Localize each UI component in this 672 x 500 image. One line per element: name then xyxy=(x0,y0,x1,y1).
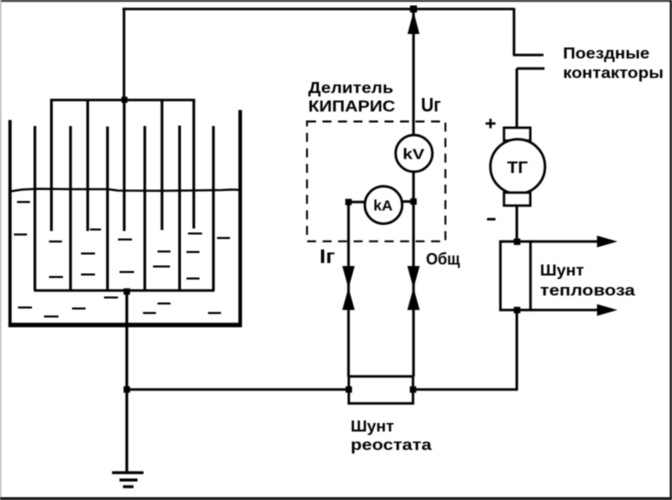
svg-text:тепловоза: тепловоза xyxy=(540,283,635,300)
svg-text:КИПАРИС: КИПАРИС xyxy=(308,98,395,115)
tank right wall xyxy=(238,110,242,326)
electrode B2 xyxy=(69,126,72,291)
arrow up on Obsh wire xyxy=(407,292,419,311)
wire from tank top bus up to top wire xyxy=(123,8,126,100)
wire kA right terminal xyxy=(402,200,414,203)
svg-text:реостата: реостата xyxy=(351,437,432,454)
svg-text:kA: kA xyxy=(373,198,392,215)
svg-text:Iг: Iг xyxy=(320,247,336,268)
water dash 13 xyxy=(72,308,86,310)
node junction at shunt bottom dot xyxy=(514,307,521,314)
wire generator to shunt xyxy=(515,206,518,242)
ammeter kA circle xyxy=(365,186,402,223)
dashed box divider KIPARIS xyxy=(307,122,445,242)
minus sign xyxy=(487,218,496,221)
electrode A3 xyxy=(123,100,126,231)
wire tank to ground xyxy=(125,291,128,473)
water dash 17 xyxy=(153,266,170,268)
node shunt reostata right dot xyxy=(410,386,416,392)
wire kA left terminal xyxy=(349,201,366,204)
wire contactor to generator plus xyxy=(515,69,518,129)
wire top horizontal bus xyxy=(123,8,515,11)
water dash 22 xyxy=(208,312,221,314)
electrode B6 xyxy=(212,126,215,291)
water dash 9 xyxy=(120,271,135,273)
water dash 12 xyxy=(44,316,59,318)
water dash 3 xyxy=(49,241,62,243)
node junction kA to main wire dot xyxy=(410,198,416,204)
node junction at shunt top dot xyxy=(514,239,521,246)
generator TG circle U1 xyxy=(490,139,545,194)
electrode A1 xyxy=(50,100,53,231)
electrode B5 xyxy=(178,126,181,291)
water dash 4 xyxy=(90,229,101,231)
water dash 11 xyxy=(18,307,32,309)
water dash 1 xyxy=(17,201,30,203)
frame border left xyxy=(0,0,1,500)
electrode A2 xyxy=(86,100,89,231)
svg-text:Шунт: Шунт xyxy=(351,419,395,436)
arrow top output head xyxy=(597,236,618,248)
electrode A5 xyxy=(192,100,195,229)
water dash 8 xyxy=(118,239,132,241)
wire bottom right horizontal xyxy=(413,388,518,391)
water dash 10 xyxy=(104,297,118,299)
water dash 15 xyxy=(217,237,230,239)
resistor shunt teplovoza box xyxy=(500,242,530,311)
arrow bottom output head xyxy=(597,304,618,316)
water dash 14 xyxy=(188,233,202,235)
wire Ig vertical xyxy=(347,202,350,376)
arrow down on Obsh wire xyxy=(407,266,419,285)
water dash 6 xyxy=(81,253,95,255)
tank left wall xyxy=(8,120,11,326)
node kA left terminal dot xyxy=(345,199,351,205)
water dash 21 xyxy=(143,312,156,314)
frame border top xyxy=(0,0,672,2)
node shunt reostata left dot xyxy=(346,386,352,392)
water dash 18 xyxy=(187,251,200,253)
wire bottom left horizontal xyxy=(127,388,349,391)
node top bus junction dot xyxy=(122,97,128,103)
wire shunt down xyxy=(515,310,518,390)
water dash 2 xyxy=(14,234,27,236)
node junction at shunt top xyxy=(514,239,520,245)
water dash 16 xyxy=(158,251,171,253)
water line xyxy=(10,189,240,192)
tank bottom xyxy=(8,323,242,327)
node bottom left junction dot xyxy=(124,386,130,392)
generator TG top brush xyxy=(504,128,530,141)
electrode B3 xyxy=(106,127,109,291)
svg-text:kV: kV xyxy=(403,146,425,163)
arrow up on Ig wire xyxy=(342,292,354,311)
wire main vertical Ug xyxy=(412,9,415,376)
frame border bottom xyxy=(0,497,672,500)
svg-text:Делитель: Делитель xyxy=(308,80,393,97)
plus sign xyxy=(486,119,496,129)
water dash 5 xyxy=(49,276,63,278)
electrode B4 xyxy=(143,126,146,291)
water dash 20 xyxy=(158,303,171,305)
ground symbol xyxy=(112,473,144,487)
node bottom bus junction dot xyxy=(124,288,130,294)
svg-text:Общ: Общ xyxy=(426,250,461,269)
svg-text:Шунт: Шунт xyxy=(540,263,584,280)
electrode bottom bus xyxy=(34,289,215,292)
generator TG bottom brush xyxy=(504,193,530,206)
wire top output arrow line xyxy=(531,240,600,243)
wire right drop to contactor xyxy=(513,8,516,55)
arrow up at top of main wire xyxy=(408,12,420,35)
voltmeter kV circle xyxy=(396,135,433,172)
contactor lower blade xyxy=(517,67,545,70)
svg-text:контакторы: контакторы xyxy=(563,65,664,82)
frame border right xyxy=(670,0,672,500)
electrode B1 xyxy=(34,126,37,291)
svg-text:ТГ: ТГ xyxy=(507,158,528,177)
contactor upper blade xyxy=(513,54,544,57)
wire bottom output arrow line xyxy=(531,309,600,312)
resistor shunt reostata box xyxy=(349,376,413,403)
electrode top bus xyxy=(50,99,195,101)
electrode A4 xyxy=(161,100,164,230)
svg-text:Uг: Uг xyxy=(421,95,441,116)
node junction on top wire dot xyxy=(410,6,417,13)
water dash 19 xyxy=(187,278,200,280)
water dash 7 xyxy=(81,274,95,276)
svg-text:Поездные: Поездные xyxy=(563,45,650,62)
arrow down on Ig wire xyxy=(342,266,354,285)
